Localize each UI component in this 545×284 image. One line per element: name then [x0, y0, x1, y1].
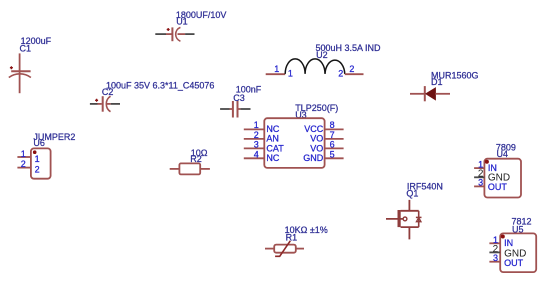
plate — [11, 70, 30, 72]
svg-text:2: 2 — [349, 64, 354, 74]
curved plate — [176, 27, 181, 41]
svg-text:GND: GND — [303, 153, 324, 163]
gate pin — [386, 218, 403, 220]
wire — [266, 73, 286, 75]
diode D1 — [410, 70, 479, 101]
regulator U5 — [489, 216, 536, 272]
pin 1 — [244, 128, 264, 130]
pin 1 — [170, 168, 180, 170]
svg-text:2: 2 — [254, 130, 259, 140]
regulator U4 — [474, 142, 521, 197]
inductor U2 — [266, 43, 381, 79]
wire — [220, 108, 229, 110]
svg-text:1: 1 — [274, 64, 279, 74]
svg-text:2: 2 — [35, 164, 40, 174]
svg-text:NC: NC — [266, 153, 279, 163]
wire — [185, 33, 194, 35]
pin 5 — [325, 157, 344, 159]
plus polarity mark — [95, 99, 98, 102]
pin 1 dot — [33, 150, 37, 154]
pin 1 — [17, 156, 31, 158]
pin 3 — [489, 261, 500, 263]
svg-text:C3: C3 — [233, 93, 245, 103]
svg-text:6: 6 — [330, 139, 335, 149]
pin 2 — [474, 176, 484, 178]
body diode triangle — [416, 218, 421, 222]
svg-text:3: 3 — [254, 139, 259, 149]
pin 1 dot — [485, 160, 489, 164]
svg-text:NC: NC — [266, 124, 279, 134]
curved plate — [9, 74, 31, 78]
svg-text:C1: C1 — [20, 43, 32, 53]
capacitor C2 — [90, 80, 215, 111]
pin 8 — [325, 128, 344, 130]
body — [179, 163, 200, 174]
svg-text:VO: VO — [310, 133, 323, 143]
svg-text:3: 3 — [478, 177, 483, 187]
wire — [345, 73, 364, 75]
svg-text:CAT: CAT — [266, 143, 284, 153]
wire — [155, 33, 166, 35]
plate — [171, 27, 173, 41]
drain pin — [401, 200, 419, 211]
pin 1 — [265, 248, 274, 250]
svg-text:2: 2 — [338, 68, 343, 78]
svg-text:1: 1 — [21, 149, 26, 159]
pin 1 — [435, 93, 450, 95]
pin 2 — [489, 251, 500, 253]
op-amp U3 — [244, 103, 344, 168]
wire — [111, 103, 120, 105]
body — [264, 118, 324, 168]
pin 1 — [230, 108, 233, 110]
pin 2 — [244, 138, 264, 140]
svg-text:AN: AN — [266, 133, 279, 143]
plate — [237, 101, 239, 118]
pin 1 — [166, 33, 172, 35]
anode triangle — [426, 88, 436, 100]
curved plate — [106, 96, 110, 112]
plus polarity mark — [167, 28, 170, 31]
svg-text:U2: U2 — [316, 50, 328, 60]
svg-text:C2: C2 — [102, 87, 114, 97]
pin 2 — [410, 93, 424, 95]
transistor Q1 — [386, 181, 443, 239]
pin 1 — [474, 167, 484, 169]
pin 1 dot — [501, 235, 505, 239]
pin 1 — [489, 242, 500, 244]
svg-text:1: 1 — [254, 120, 259, 130]
svg-text:OUT: OUT — [504, 258, 523, 268]
svg-text:2: 2 — [21, 159, 26, 169]
pin 2 — [238, 108, 240, 110]
svg-text:5: 5 — [330, 149, 335, 159]
svg-text:U1: U1 — [176, 16, 188, 26]
capacitor C1 — [9, 36, 52, 93]
wire — [240, 108, 250, 110]
svg-text:7: 7 — [330, 130, 335, 140]
body — [500, 233, 536, 272]
pin 2 — [17, 167, 31, 169]
svg-text:4: 4 — [254, 149, 259, 159]
plate — [102, 96, 104, 112]
svg-text:Q1: Q1 — [406, 189, 418, 199]
source pin — [401, 227, 419, 239]
svg-text:U6: U6 — [33, 138, 45, 148]
svg-text:U4: U4 — [497, 149, 509, 159]
svg-text:IN: IN — [488, 163, 497, 173]
thermistor slash — [275, 241, 290, 256]
body — [31, 148, 51, 178]
pin 1 — [98, 103, 102, 105]
body — [484, 159, 521, 198]
svg-text:IN: IN — [504, 238, 513, 248]
bulk ring — [403, 217, 407, 221]
svg-text:3: 3 — [493, 253, 498, 263]
pin 2 — [200, 168, 210, 170]
wire — [19, 53, 21, 93]
resistor R1 — [265, 225, 328, 256]
svg-text:8: 8 — [330, 120, 335, 130]
capacitor C3 — [220, 84, 262, 117]
body diode cathode bar — [416, 216, 422, 218]
gate bar — [398, 210, 401, 227]
pin 2 — [107, 103, 111, 105]
svg-text:R1: R1 — [286, 232, 298, 242]
coil — [285, 59, 345, 74]
svg-text:100uF 35V 6.3*11_C45076: 100uF 35V 6.3*11_C45076 — [106, 80, 214, 90]
svg-text:VCC: VCC — [304, 124, 324, 134]
pin 4 — [244, 157, 264, 159]
cathode bar — [424, 86, 426, 101]
pin 3 — [474, 185, 484, 187]
plate — [232, 101, 234, 118]
svg-text:OUT: OUT — [488, 182, 508, 192]
body diode branch — [418, 211, 420, 227]
wire — [90, 103, 98, 105]
pin 3 — [244, 147, 264, 149]
resistor R2 — [170, 148, 210, 175]
plus polarity mark — [10, 66, 13, 69]
pin 6 — [325, 147, 344, 149]
body — [274, 245, 296, 253]
svg-text:1: 1 — [288, 69, 293, 79]
svg-text:VO: VO — [310, 143, 323, 153]
pin 2 — [296, 248, 304, 250]
svg-text:1: 1 — [35, 154, 40, 164]
pin 7 — [325, 138, 344, 140]
svg-text:D1: D1 — [431, 77, 443, 87]
capacitor U1 — [155, 10, 226, 41]
pin 2 — [178, 33, 186, 35]
connector U6 — [17, 132, 75, 179]
